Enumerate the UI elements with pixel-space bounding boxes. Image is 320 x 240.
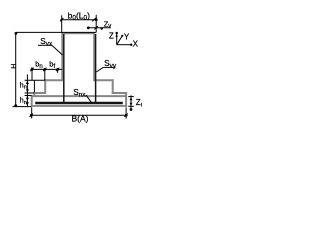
hn arrow slab bottom up xyxy=(26,102,29,106)
dot bn left xyxy=(31,68,34,71)
extension to ledge2 xyxy=(33,81,35,93)
Zn bottom tick xyxy=(128,105,134,107)
slash tick b0 left xyxy=(60,18,63,21)
dimension B(A) line xyxy=(31,114,126,116)
label Svx underline xyxy=(38,44,52,46)
svg-text:b0(L0): b0(L0) xyxy=(68,11,91,22)
right step-1 ledge xyxy=(93,79,113,81)
b0 left extension xyxy=(61,15,63,32)
slash tick B(A) left xyxy=(30,114,33,117)
label Svx leader xyxy=(52,45,63,55)
hn arrow slab top down xyxy=(26,96,29,100)
dot bf right xyxy=(56,68,59,71)
slash tick b0 right xyxy=(92,18,95,21)
right wall reinforcement bar Svy xyxy=(95,34,97,103)
label H xyxy=(11,64,18,69)
axes icon Z tip dot and arrowhead xyxy=(116,32,118,37)
axes icon Z axis xyxy=(116,33,118,45)
axes icon Y tip dot xyxy=(121,35,123,37)
top reference line xyxy=(16,31,97,33)
svg-text:Y: Y xyxy=(124,33,130,42)
Zn arrow top xyxy=(130,97,133,101)
dot B(A) right xyxy=(125,114,128,117)
dimension H bottom tick xyxy=(13,106,32,108)
slash tick bn left xyxy=(30,68,33,71)
dimension Zv line xyxy=(88,27,111,29)
left step-2 ledge xyxy=(34,92,46,94)
label Svy leader xyxy=(96,67,103,72)
B(A) left extension xyxy=(31,107,33,118)
hn tick at slab top xyxy=(25,95,32,97)
bf right extension stub xyxy=(57,70,59,73)
axes icon Y axis xyxy=(117,36,123,45)
left step-1 ledge xyxy=(44,79,63,81)
dot bn/bf middle xyxy=(43,68,46,71)
b0 right extension at bar plane xyxy=(95,15,97,33)
axes icon X axis xyxy=(117,44,132,46)
dot Zv label anchor xyxy=(101,27,103,29)
hn arrow ledge2 up xyxy=(26,89,29,93)
bn/bf middle extension xyxy=(44,70,46,80)
axes icon X tip dot xyxy=(130,44,132,46)
B(A) right extension xyxy=(125,107,127,118)
right step-2 ledge xyxy=(112,92,127,94)
slash tick bn/bf middle xyxy=(43,68,46,71)
dot Zv left end xyxy=(87,26,90,29)
Zn top tick xyxy=(128,96,134,98)
dot B(A) left xyxy=(30,114,33,117)
dot b0 right end xyxy=(95,18,98,21)
footing slab bottom edge xyxy=(31,105,127,107)
bn left extension xyxy=(31,67,33,80)
hn tick at ledge1 xyxy=(25,79,46,81)
footing slab top edge xyxy=(31,95,126,97)
dot at H bottom xyxy=(14,104,17,107)
svg-text:Z: Z xyxy=(109,31,114,40)
slash tick Zv xyxy=(95,26,98,29)
left step-2 face xyxy=(33,92,35,97)
hn arrow ledge1 down xyxy=(26,80,29,84)
svg-text:hn: hn xyxy=(20,82,27,90)
slash tick bf right xyxy=(56,68,59,71)
dimension hn line xyxy=(26,75,28,107)
bottom reinforcement mesh Snx xyxy=(35,102,123,105)
column top edge xyxy=(61,32,95,34)
slash tick B(A) right xyxy=(124,114,127,117)
column right wall xyxy=(93,33,95,81)
Zn arrow bottom xyxy=(130,103,133,107)
svg-text:B(A): B(A) xyxy=(72,113,89,123)
hn tick at ledge2 xyxy=(25,92,34,94)
label Svy underline xyxy=(103,66,115,68)
column left wall xyxy=(61,33,63,81)
dot at top reference corner xyxy=(15,32,18,35)
left wall reinforcement bar Svx xyxy=(63,34,65,103)
footing slab right edge xyxy=(125,92,127,107)
label Snx leader xyxy=(86,95,92,103)
svg-text:H: H xyxy=(11,64,18,69)
svg-text:hn: hn xyxy=(20,98,27,106)
footing slab left edge xyxy=(31,95,33,107)
dimension b0(L0) line xyxy=(60,19,97,21)
dimension bn bf line xyxy=(31,68,63,70)
dot Zn bottom xyxy=(130,108,133,111)
svg-text:X: X xyxy=(133,39,139,48)
dimension H line xyxy=(15,32,17,106)
right step-1 face xyxy=(112,79,114,94)
left step-1 face xyxy=(44,79,46,94)
dimension Zn line xyxy=(130,95,132,110)
